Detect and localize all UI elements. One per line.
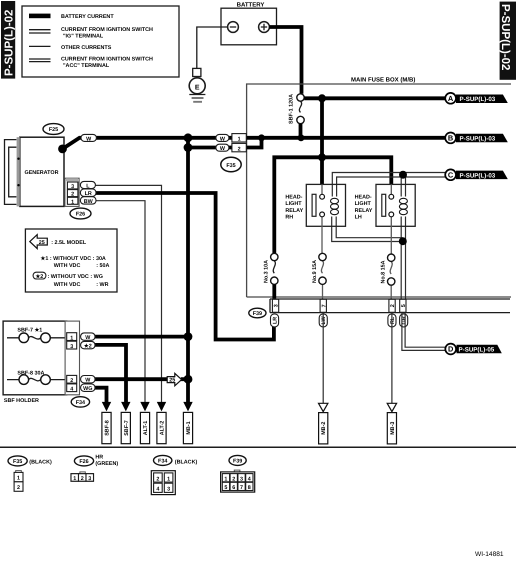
node MB-1 SBF7	[184, 332, 193, 341]
svg-text:2: 2	[81, 476, 84, 482]
strip wire color labels LR LW RL GR	[271, 314, 408, 327]
fuse SBF-7	[7, 333, 66, 343]
node MB-1 W2	[184, 143, 193, 152]
wire battery plus (thick)	[269, 27, 301, 94]
wire WG from SBF-8 pin 4 (thick)	[95, 388, 107, 403]
svg-text:3: 3	[240, 476, 243, 482]
node coil bottom net	[399, 237, 407, 245]
svg-text:7: 7	[321, 304, 327, 307]
svg-text:: 50A: : 50A	[96, 263, 109, 269]
svg-text:2: 2	[156, 476, 159, 482]
svg-text:2: 2	[238, 146, 241, 152]
svg-text:"ACC" TERMINAL: "ACC" TERMINAL	[63, 63, 110, 69]
SBF holder box	[3, 321, 67, 404]
connector F35 pinout	[8, 456, 52, 491]
svg-text:GENERATOR: GENERATOR	[25, 170, 59, 176]
svg-text:RELAY: RELAY	[285, 208, 303, 214]
wire W from SBF-7 pin 1 (thick)	[95, 335, 188, 339]
svg-text:LW: LW	[321, 315, 327, 324]
svg-text:F39: F39	[233, 459, 242, 465]
wire pin2 elbow to B line	[246, 138, 261, 148]
svg-text:ALT-2: ALT-2	[160, 421, 166, 436]
generator wire color labels L LR BW	[80, 181, 96, 205]
fuse No.8 15A	[380, 254, 395, 299]
legend battery current bar	[29, 14, 51, 19]
svg-text:WITH VDC: WITH VDC	[54, 263, 81, 269]
svg-text:WITH VDC: WITH VDC	[54, 282, 81, 288]
svg-text:8: 8	[248, 485, 251, 491]
svg-text:4: 4	[70, 386, 73, 392]
svg-text:2: 2	[17, 485, 20, 491]
legend IG double line	[29, 30, 51, 33]
svg-text:3: 3	[88, 476, 91, 482]
legend other currents line	[29, 45, 51, 47]
svg-text:"IG" TERMINAL: "IG" TERMINAL	[63, 34, 104, 40]
connector F25	[43, 124, 64, 135]
svg-text:P-SUP(L)-05: P-SUP(L)-05	[459, 346, 495, 353]
SBF holder pin block F34	[65, 321, 79, 395]
fuse SBF-1 120A	[289, 94, 305, 138]
headlight relay LH label	[355, 194, 373, 220]
fuse No.9 15A	[312, 253, 326, 299]
svg-text:BATTERY: BATTERY	[237, 1, 265, 8]
svg-text:HR: HR	[95, 454, 103, 460]
connector F35	[221, 157, 241, 171]
svg-text:P-SUP(L)-03: P-SUP(L)-03	[460, 96, 496, 103]
svg-text:SBF-7: SBF-7	[124, 420, 130, 436]
svg-text:3: 3	[274, 304, 280, 307]
node MB-1 W1	[184, 133, 193, 142]
svg-text:E: E	[195, 84, 200, 91]
wire L from generator pin 3	[95, 185, 161, 402]
arrow 25 marker	[167, 373, 181, 385]
svg-text:5: 5	[401, 304, 407, 307]
svg-text:MB-2: MB-2	[321, 422, 327, 435]
svg-text:4: 4	[156, 487, 159, 493]
svg-text:25: 25	[39, 240, 45, 246]
svg-text:ALT-1: ALT-1	[143, 421, 149, 436]
svg-text:BW: BW	[84, 199, 94, 205]
svg-text:2: 2	[390, 304, 396, 307]
svg-text:1: 1	[17, 476, 20, 482]
svg-text:: WR: : WR	[96, 282, 108, 288]
node generator W output	[58, 145, 67, 154]
svg-text:7: 7	[240, 485, 243, 491]
svg-text:No.8 15A: No.8 15A	[380, 260, 386, 283]
arrow SBF-8	[102, 402, 111, 444]
wire W from SBF-8 pin 2 (thick)	[95, 377, 188, 381]
svg-text:MB-1: MB-1	[186, 421, 192, 434]
wire LH coil bottom double line to pin 5	[401, 217, 405, 300]
banner C P-SUP(L)-03	[445, 169, 508, 180]
svg-text:WI-14881: WI-14881	[475, 551, 504, 558]
fuse SBF-8	[7, 375, 66, 385]
svg-text:1: 1	[71, 199, 74, 205]
svg-text:CURRENT FROM IGNITION SWITCH: CURRENT FROM IGNITION SWITCH	[61, 56, 153, 62]
wire MB-1 vertical (thick)	[186, 138, 190, 403]
svg-text:HEAD-: HEAD-	[285, 194, 302, 200]
svg-text:HEAD-: HEAD-	[355, 194, 372, 200]
arrow MB-3 (open)	[387, 403, 396, 444]
wire coil bottom net double line	[332, 217, 403, 242]
battery	[221, 1, 277, 44]
right page tab P-SUP(L)-02	[499, 2, 516, 80]
svg-text:LIGHT: LIGHT	[285, 201, 302, 207]
connector F39 pinout	[221, 455, 255, 492]
wire A line (thick)	[304, 96, 445, 100]
svg-text:RL: RL	[390, 316, 396, 324]
svg-text:B: B	[448, 134, 453, 143]
svg-text:LR: LR	[273, 317, 279, 324]
wire LR from generator pin 2 (thick)	[96, 193, 274, 340]
main fuse box (M/B) outline	[247, 76, 511, 297]
svg-text:WG: WG	[83, 386, 92, 392]
wire W label	[81, 134, 96, 141]
svg-text:4: 4	[248, 476, 251, 482]
svg-text:P-SUP(L)-02: P-SUP(L)-02	[499, 4, 511, 70]
arrow MB-2 (open)	[319, 403, 328, 444]
wire B line (thick)	[247, 136, 446, 140]
svg-text:F26: F26	[79, 459, 88, 465]
arrow ALT-2	[157, 402, 166, 444]
battery minus terminal	[228, 22, 239, 33]
svg-text:LH: LH	[355, 215, 362, 221]
generator pin block	[65, 178, 79, 206]
svg-text:MB-3: MB-3	[390, 422, 396, 435]
svg-text:(GREEN): (GREEN)	[95, 461, 118, 467]
node on A line	[318, 94, 326, 102]
node C net	[399, 171, 407, 179]
ground E	[189, 68, 205, 101]
svg-text:5: 5	[224, 485, 227, 491]
svg-text:6: 6	[232, 485, 235, 491]
svg-text:: WITHOUT VDC : WG: : WITHOUT VDC : WG	[48, 274, 103, 280]
svg-text:3: 3	[167, 487, 170, 493]
svg-text:D: D	[448, 345, 454, 354]
svg-text:MAIN FUSE BOX (M/B): MAIN FUSE BOX (M/B)	[351, 76, 415, 83]
wire relay feed vertical (thick)	[320, 98, 324, 184]
generator	[5, 137, 65, 206]
svg-text:2: 2	[70, 378, 73, 384]
svg-text:25: 25	[169, 378, 175, 384]
wire star2 from SBF-7 pin 3 (thick)	[95, 345, 126, 402]
svg-text:No.3 10A: No.3 10A	[263, 260, 269, 283]
note arrow 25	[30, 235, 48, 249]
wire LH coil top double line	[401, 175, 405, 197]
svg-text:W: W	[85, 378, 91, 384]
svg-text:W: W	[85, 335, 91, 341]
node B line left	[258, 134, 265, 141]
svg-text:(BLACK): (BLACK)	[175, 460, 198, 466]
connector F39 label	[249, 308, 266, 318]
svg-text:1: 1	[70, 335, 73, 341]
banner D P-SUP(L)-05	[445, 344, 501, 355]
svg-text:: 2.5L MODEL: : 2.5L MODEL	[51, 240, 87, 246]
note box 2.5L model	[25, 229, 117, 292]
svg-text:P-SUP(L)-03: P-SUP(L)-03	[460, 136, 496, 143]
svg-text:F26: F26	[76, 212, 85, 218]
wire battery minus to ground	[197, 27, 228, 68]
svg-text:C: C	[448, 171, 454, 180]
svg-text:P-SUP(L)-03: P-SUP(L)-03	[460, 172, 496, 179]
svg-text:★2: ★2	[83, 342, 92, 349]
svg-text:F34: F34	[76, 400, 85, 406]
svg-text:2: 2	[71, 192, 74, 198]
svg-text:1: 1	[238, 137, 241, 143]
svg-text:RELAY: RELAY	[355, 208, 373, 214]
svg-text:1: 1	[224, 476, 227, 482]
left page tab P-SUP(L)-02	[1, 1, 15, 79]
node MB-1 SBF8	[184, 375, 193, 384]
connector F26 pinout	[71, 454, 118, 481]
wire BW from generator pin 1	[96, 201, 145, 403]
wire GR double line to D	[402, 313, 446, 351]
connector F34	[71, 397, 89, 407]
svg-text:F34: F34	[158, 459, 167, 465]
svg-text:F25: F25	[49, 127, 58, 133]
connector strip F39	[270, 299, 510, 313]
svg-text:1: 1	[73, 476, 76, 482]
battery plus terminal	[259, 22, 270, 33]
svg-text:BATTERY CURRENT: BATTERY CURRENT	[61, 14, 114, 20]
svg-text:P-SUP(L)-02: P-SUP(L)-02	[3, 10, 15, 76]
SBF holder wire color labels	[81, 333, 95, 392]
arrow MB-1	[183, 402, 192, 444]
svg-text:3: 3	[70, 344, 73, 350]
connector F34 pinout	[151, 455, 197, 494]
svg-text:RH: RH	[285, 215, 293, 221]
svg-text:(BLACK): (BLACK)	[29, 460, 52, 466]
connector F26	[70, 208, 91, 219]
arrow ALT-1	[140, 402, 149, 444]
svg-text:OTHER CURRENTS: OTHER CURRENTS	[61, 45, 112, 51]
svg-text:★2: ★2	[34, 273, 43, 280]
svg-text:3: 3	[71, 184, 74, 190]
banner A P-SUP(L)-03	[445, 93, 508, 104]
svg-text:LIGHT: LIGHT	[355, 201, 372, 207]
banner B P-SUP(L)-03	[445, 133, 508, 144]
separator line	[0, 446, 516, 448]
svg-text:CURRENT FROM IGNITION SWITCH: CURRENT FROM IGNITION SWITCH	[61, 27, 153, 33]
arrow SBF-7	[121, 402, 130, 444]
svg-text:2: 2	[232, 476, 235, 482]
legend ACC double line	[29, 59, 51, 62]
legend box	[22, 6, 179, 77]
svg-text:1: 1	[167, 476, 170, 482]
node B line fuse	[298, 134, 305, 141]
wire RL to MB-3	[391, 313, 393, 404]
headlight relay RH label	[285, 194, 303, 220]
wire LW to MB-2	[322, 313, 324, 404]
wire C net double line	[332, 173, 445, 197]
svg-text:SBF-8: SBF-8	[105, 420, 111, 436]
svg-text:SBF-1 120A: SBF-1 120A	[289, 94, 295, 124]
fuse No.3 10A	[263, 253, 278, 299]
svg-text:A: A	[448, 94, 454, 103]
wire W2 to F35 (thick)	[188, 146, 232, 150]
svg-text:★1 : WITHOUT VDC : 30A: ★1 : WITHOUT VDC : 30A	[40, 255, 106, 262]
node y157	[318, 153, 326, 161]
connector F35 pin labels	[216, 134, 246, 153]
wire W from generator (thick)	[63, 138, 233, 149]
headlight relay RH	[306, 184, 345, 253]
svg-text:F35: F35	[226, 163, 235, 169]
headlight relay LH	[376, 184, 415, 254]
svg-text:F39: F39	[253, 311, 262, 317]
svg-text:SBF-7 ★1: SBF-7 ★1	[17, 326, 42, 333]
svg-text:F35: F35	[13, 459, 22, 465]
svg-text:SBF HOLDER: SBF HOLDER	[4, 398, 39, 404]
svg-text:No.9 15A: No.9 15A	[312, 260, 318, 283]
wire relay feed horizontal y157 (thick)	[274, 157, 391, 253]
